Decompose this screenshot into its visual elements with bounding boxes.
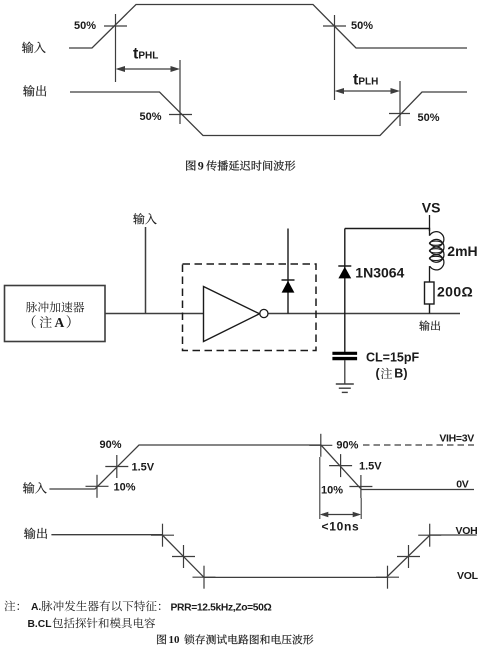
node 10% cross falling bbox=[360, 475, 362, 498]
note line A bbox=[4, 601, 19, 612]
svg-text:50%: 50% bbox=[351, 20, 373, 32]
label 输入 circuit input bbox=[133, 213, 156, 224]
svg-text:200Ω: 200Ω bbox=[437, 284, 473, 300]
inductor L1 2mH coil bbox=[430, 232, 444, 247]
node 50% tick input rising edge bbox=[104, 25, 127, 27]
node 50% tick output falling edge bbox=[169, 114, 192, 116]
node cross out-fall bottom bbox=[203, 566, 205, 589]
DUT dashed box bbox=[183, 264, 317, 351]
svg-text:0V: 0V bbox=[456, 479, 469, 491]
wire input vertical bbox=[145, 227, 147, 314]
svg-text:VIH=3V: VIH=3V bbox=[439, 433, 474, 445]
svg-text:VS: VS bbox=[422, 199, 441, 215]
wire clamp diode branch bbox=[287, 229, 289, 314]
wire measurement line right 10ns bbox=[360, 498, 362, 519]
svg-text:1N3064: 1N3064 bbox=[355, 264, 404, 280]
wire VS stub bbox=[429, 215, 431, 236]
svg-text:B.CL: B.CL bbox=[28, 619, 52, 630]
wire tPLH dimension arrow bbox=[337, 90, 397, 92]
svg-text:90%: 90% bbox=[336, 439, 358, 451]
node cross out-fall mid bbox=[183, 545, 185, 568]
caption 图9 传播延迟时间波形 bbox=[186, 160, 195, 170]
svg-text:VOH: VOH bbox=[456, 525, 478, 537]
label 输出 fig9 bbox=[23, 85, 46, 96]
inverter U1 output bubble bbox=[260, 309, 268, 317]
svg-text:A: A bbox=[55, 315, 65, 330]
svg-text:9: 9 bbox=[198, 158, 204, 172]
node cross out-rise top bbox=[429, 524, 431, 547]
node 90% cross falling bbox=[320, 434, 322, 457]
diode D2 1N3064 bbox=[338, 265, 351, 267]
label 输出 waveform2 bbox=[24, 528, 47, 539]
wire input waveform fig10 bbox=[49, 445, 474, 490]
svg-text:A.: A. bbox=[31, 602, 41, 613]
wire inductor to resistor bbox=[429, 266, 431, 282]
label 输入 fig9 bbox=[22, 42, 46, 53]
svg-text:90%: 90% bbox=[100, 439, 122, 451]
pulse generator box 脉冲加速器 bbox=[5, 286, 106, 342]
wire output waveform fig9 bbox=[70, 92, 467, 136]
wire main horizontal node bbox=[105, 313, 460, 315]
label 输入 waveform2 bbox=[23, 482, 47, 493]
svg-text:2mH: 2mH bbox=[447, 243, 477, 259]
node 50% tick output rising edge bbox=[389, 113, 410, 115]
svg-text:CL=15pF: CL=15pF bbox=[366, 351, 420, 365]
node 10% cross rising bbox=[96, 475, 98, 498]
inverter U1 triangle bbox=[204, 287, 260, 342]
ground symbol bbox=[336, 383, 354, 385]
wire 1N3064 branch vertical bbox=[344, 229, 346, 353]
node 50% tick input falling edge bbox=[323, 25, 346, 27]
wire capacitor to ground bbox=[344, 360, 346, 384]
svg-text:B): B) bbox=[394, 367, 407, 381]
wire measurement line right tPHL bbox=[179, 60, 181, 124]
wire tPHL dimension arrow bbox=[118, 68, 177, 70]
svg-text:VOL: VOL bbox=[457, 570, 479, 582]
wire 10ns dimension arrow bbox=[322, 514, 359, 516]
svg-text:50%: 50% bbox=[139, 111, 161, 123]
svg-text:<10ns: <10ns bbox=[322, 520, 360, 534]
resistor R1 200ohm bbox=[425, 282, 435, 304]
wire measurement line left 10ns bbox=[319, 457, 321, 519]
wire VIH dashed level bbox=[363, 444, 474, 446]
caption 图10 锁存测试电路图和电压波形 bbox=[157, 634, 166, 644]
svg-text:50%: 50% bbox=[418, 112, 440, 124]
wire measurement line right tPLH bbox=[399, 81, 401, 126]
node cross out-rise mid bbox=[408, 545, 410, 568]
node cross out-fall top bbox=[162, 524, 164, 547]
wire top rail to VS bbox=[345, 229, 430, 232]
capacitor CL plates bbox=[332, 352, 357, 355]
svg-text:10: 10 bbox=[169, 634, 181, 646]
svg-text:50%: 50% bbox=[74, 20, 96, 32]
label 输出 circuit output bbox=[419, 320, 440, 330]
wire input-high-top (fig9 input waveform) bbox=[69, 5, 467, 49]
wire measurement line left tPHL bbox=[115, 14, 117, 82]
svg-text:10%: 10% bbox=[321, 485, 343, 497]
svg-text:1.5V: 1.5V bbox=[132, 462, 155, 474]
svg-text:1.5V: 1.5V bbox=[359, 460, 382, 472]
node cross out-rise bottom bbox=[387, 566, 389, 589]
wire measurement line left tPLH bbox=[334, 15, 336, 100]
svg-text:10%: 10% bbox=[114, 482, 136, 494]
wire output waveform fig10 bbox=[51, 535, 476, 578]
node 1.5V cross rising bbox=[116, 455, 118, 478]
diode D1 clamp (in DUT box) bbox=[282, 279, 295, 281]
wire resistor to output node bbox=[429, 304, 431, 314]
svg-text:PRR=12.5kHz,Zo=50Ω: PRR=12.5kHz,Zo=50Ω bbox=[171, 602, 272, 613]
node 1.5V cross falling bbox=[340, 454, 342, 477]
